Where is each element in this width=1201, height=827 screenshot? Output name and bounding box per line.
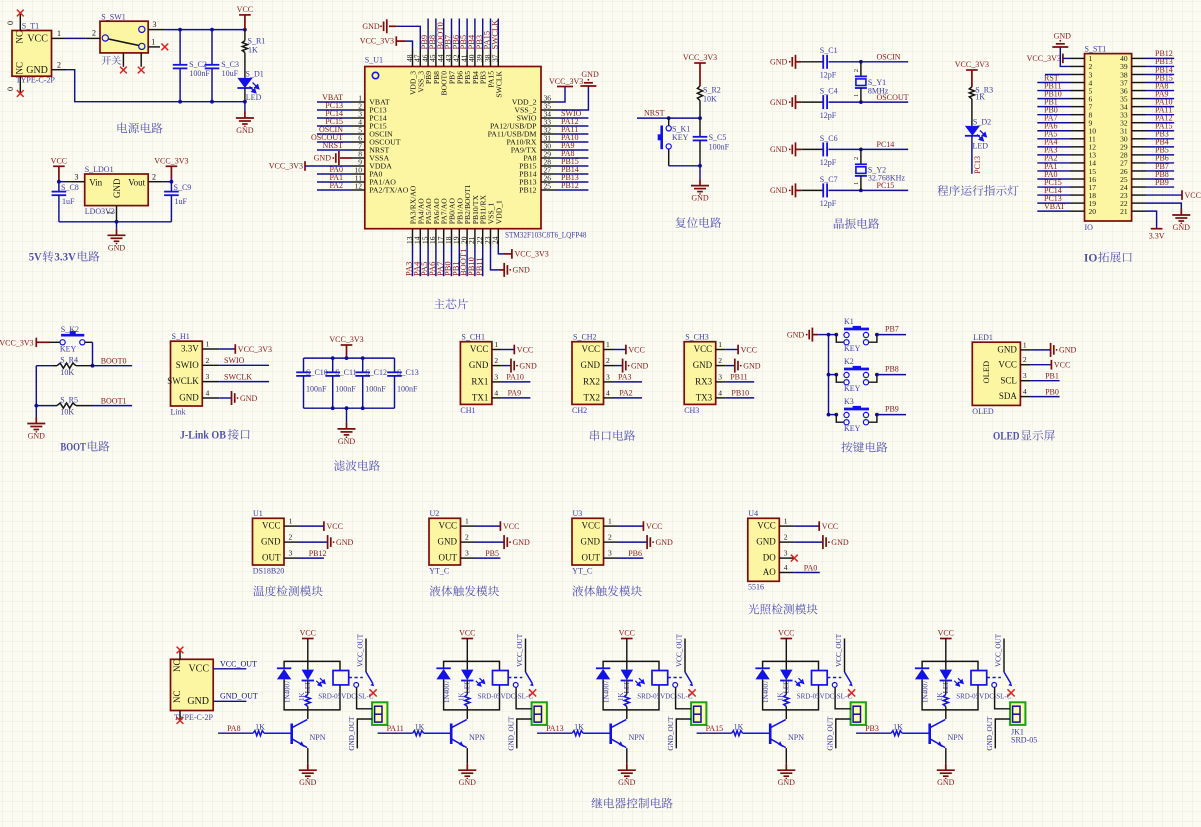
pushbutton K1 KEY [829, 317, 879, 353]
svg-text:3: 3 [718, 372, 722, 381]
wire/net PA3 at U1 pin 13 [412, 246, 414, 277]
svg-text:S_C1: S_C1 [820, 46, 838, 55]
no-connect flag on S_T1 top pin [17, 10, 24, 17]
no-connect on NC contact [370, 689, 377, 696]
junction [859, 60, 863, 64]
base resistor 1K [378, 723, 452, 736]
wire/net PB13 at U1 pin 26 [557, 181, 589, 183]
svg-text:IO: IO [1084, 250, 1098, 264]
svg-text:GND: GND [778, 778, 796, 787]
wire switch pin3 to VCC rail [163, 29, 245, 31]
base resistor 1K [856, 723, 930, 736]
svg-text:VCC: VCC [470, 344, 489, 354]
switch S_SW1 开关 [86, 13, 163, 67]
svg-text:2: 2 [152, 172, 156, 181]
wire/net PA9 at U1 pin 30 [557, 149, 589, 151]
svg-text:VCC_OUT: VCC_OUT [516, 633, 524, 667]
wire/net PA1 at ST1 pin 15 [1037, 170, 1070, 172]
svg-text:VCC: VCC [188, 664, 209, 675]
capacitor S_C13 100nF [387, 358, 419, 408]
svg-text:S_C12: S_C12 [365, 368, 387, 377]
svg-text:GND_OUT: GND_OUT [986, 716, 994, 751]
relay switch contact [992, 633, 1012, 687]
wire/net PB6 at U1 pin 42 [458, 19, 460, 51]
svg-text:U2: U2 [430, 509, 440, 518]
svg-text:1K: 1K [255, 723, 265, 732]
power flag VCC at S_CH3 pin1 [726, 345, 757, 355]
no-connect on NC contact [1008, 689, 1015, 696]
wire VCC to LED [626, 639, 628, 670]
relay switch contact [832, 633, 852, 687]
wire/net PC13 to U1 pin 2 [317, 109, 352, 111]
no-connect on NC contact [848, 689, 855, 696]
pushbutton K3 KEY [829, 397, 879, 433]
svg-text:SRD-05VDC-SL-C: SRD-05VDC-SL-C [478, 692, 534, 700]
svg-text:1K: 1K [458, 692, 466, 701]
wire/net PB7 at U1 pin 43 [451, 19, 453, 51]
svg-text:SWIO: SWIO [224, 356, 245, 365]
svg-text:1K: 1K [936, 692, 944, 701]
ground flag at U1 pin23 VSS_1 [491, 246, 531, 277]
svg-text:VCC: VCC [237, 5, 253, 14]
connector S_CH2 serial header [572, 333, 614, 415]
wire/net PC15 at ST1 pin 17 [1037, 186, 1070, 188]
svg-text:5516: 5516 [748, 583, 764, 592]
connector S_CH3 serial header [684, 333, 726, 415]
wire/net PA11 at ST1 pin 33 [1146, 114, 1174, 116]
svg-text:S_T1: S_T1 [22, 21, 39, 30]
svg-text:GND: GND [338, 437, 356, 446]
svg-text:1K: 1K [298, 692, 306, 701]
capacitor S_C2 100nF [173, 30, 211, 102]
svg-text:VCC: VCC [938, 629, 954, 638]
title 按键电路 [841, 442, 887, 453]
svg-text:2: 2 [784, 533, 788, 542]
wire/net PC14 [861, 148, 908, 150]
svg-text:S_H1: S_H1 [172, 332, 190, 341]
svg-text:3: 3 [606, 372, 610, 381]
wire/net PB15 at U1 pin 28 [557, 165, 589, 167]
power flag 3.3V at ST1 pin21 [1146, 211, 1165, 240]
ground [108, 222, 126, 253]
title 电源电路 [117, 123, 162, 134]
svg-text:VBAT: VBAT [1044, 202, 1065, 211]
svg-text:PA15: PA15 [706, 724, 724, 733]
svg-text:1K: 1K [617, 692, 625, 701]
svg-text:2: 2 [606, 356, 610, 365]
svg-text:K3: K3 [844, 397, 854, 406]
svg-text:S_R4: S_R4 [60, 356, 78, 365]
wire/net PB3 at ST1 pin 30 [1146, 138, 1174, 140]
svg-text:PC14: PC14 [877, 140, 895, 149]
ground flag at H1 pin4 [219, 391, 257, 405]
svg-text:1N4007: 1N4007 [762, 680, 770, 703]
power flag VCC at S_CH1 pin1 [502, 345, 533, 355]
wire/net PB14 at ST1 pin 38 [1146, 73, 1174, 75]
resistor 1K vertical [936, 681, 948, 710]
svg-text:VCC: VCC [757, 521, 776, 531]
svg-text:PB11: PB11 [474, 257, 484, 276]
connector S_H1 J-Link OB header [167, 332, 219, 416]
no-connect flag on S_SW1 pin1 [161, 44, 168, 51]
junction [345, 356, 349, 360]
svg-text:SRD-05: SRD-05 [1011, 736, 1037, 745]
transistor NPN [292, 710, 326, 764]
wire/net GND_OUT [213, 700, 246, 702]
svg-text:PA10: PA10 [506, 373, 524, 382]
wire/net SWCLK at U1 pin 37 [497, 19, 499, 51]
svg-text:RX3: RX3 [695, 377, 713, 387]
svg-text:VCC_OUT: VCC_OUT [675, 633, 683, 667]
wire/net PB7 at K1 [877, 334, 906, 336]
svg-text:NPN: NPN [469, 733, 485, 742]
svg-text:3: 3 [153, 20, 157, 29]
wire vout [163, 181, 172, 183]
svg-text:CH3: CH3 [684, 406, 699, 415]
svg-text:PB11: PB11 [730, 373, 748, 382]
capacitor S_C10 100nF [296, 358, 328, 408]
svg-text:VCC_3V3: VCC_3V3 [360, 37, 394, 46]
title 温度检测模块 [253, 585, 322, 596]
LED in relay block [461, 670, 485, 694]
power flag VCC at LED1 pin2 [1030, 360, 1070, 370]
display LED1 OLED module [972, 333, 1030, 416]
svg-text:PB0: PB0 [1045, 387, 1059, 396]
junction [361, 406, 365, 410]
bottom rail [59, 221, 171, 223]
wire VCC to LED [785, 639, 787, 670]
wire/net PB8 at U1 pin 45 [435, 19, 437, 51]
ground flag at U1 pin35 VSS_2 [557, 70, 599, 110]
relay coil SRD-05VDC-SL-C [318, 671, 374, 701]
power flag VCC_3V3 at U1 pin48 VDD_3 [360, 36, 413, 50]
ground flag at S_CH3 pin2 [726, 359, 761, 373]
wire at ST1 pin3 [1045, 73, 1070, 75]
svg-text:S_C4: S_C4 [820, 87, 838, 96]
wire/net GND_OUT from terminal pin2 [827, 716, 851, 751]
svg-text:GND: GND [26, 65, 48, 76]
power flag VCC_3V3 at H1 pin1 [219, 344, 272, 354]
bottom rail wire [180, 101, 245, 103]
resistor 1K vertical [298, 681, 310, 710]
crystal S_Y1 8MHz [853, 62, 889, 102]
svg-text:GND: GND [1059, 346, 1077, 355]
terminal block connector [691, 702, 706, 725]
svg-text:1: 1 [784, 517, 788, 526]
svg-text:1: 1 [289, 517, 293, 526]
svg-text:VCC_3V3: VCC_3V3 [329, 335, 363, 344]
wire/net PB10 at ST1 pin 6 [1037, 98, 1070, 100]
svg-text:YT_C: YT_C [572, 566, 592, 575]
svg-text:S_C3: S_C3 [221, 60, 239, 69]
svg-text:VCC_3V3: VCC_3V3 [269, 162, 303, 171]
wire/net PC14 to U1 pin 3 [317, 117, 352, 119]
svg-text:1uF: 1uF [62, 197, 75, 206]
base resistor 1K [537, 723, 611, 736]
junction [345, 406, 349, 410]
svg-text:12pF: 12pF [820, 111, 837, 120]
wire/net PA10 at ST1 pin 34 [1146, 106, 1174, 108]
svg-text:10uF: 10uF [222, 69, 239, 78]
svg-text:SCL: SCL [1000, 375, 1017, 385]
svg-text:S_C9: S_C9 [174, 183, 192, 192]
svg-text:S_ST1: S_ST1 [1085, 45, 1107, 54]
svg-text:SRD-05VDC-SL-C: SRD-05VDC-SL-C [318, 692, 374, 700]
svg-text:4: 4 [606, 388, 610, 397]
wire/net VCC_OUT [213, 668, 246, 670]
wire/net BOOT1 at U1 pin 20 [466, 246, 468, 277]
svg-text:1: 1 [494, 340, 498, 349]
no-connect flag on S_T1 bottom pin [17, 90, 24, 97]
svg-text:K1: K1 [844, 317, 854, 326]
wire/net GND_OUT from terminal pin2 [508, 716, 532, 751]
base resistor 1K [218, 723, 292, 736]
title 5V转3.3V电路 [29, 250, 100, 264]
junction [210, 28, 214, 32]
svg-text:VCC: VCC [741, 345, 757, 354]
junction [667, 116, 671, 120]
svg-text:S_C8: S_C8 [61, 183, 79, 192]
section filter circuit 滤波电路 [0, 0, 1, 1]
svg-text:GND: GND [618, 778, 636, 787]
title 液体触发模块 [572, 585, 641, 596]
wire/net SWIO at H1 pin2 [219, 364, 269, 366]
capacitor S_C4 12pF [801, 87, 861, 120]
svg-text:GND: GND [108, 243, 126, 252]
svg-text:4: 4 [494, 388, 498, 397]
resistor S_R2 10K [697, 86, 720, 119]
svg-text:NC: NC [172, 690, 182, 703]
wire NO contact to terminal pin1 [676, 687, 692, 709]
title 晶振电路 [834, 218, 879, 229]
svg-text:TYPE-C-2P: TYPE-C-2P [16, 75, 56, 84]
svg-text:12: 12 [355, 182, 363, 191]
title 液体触发模块 [430, 585, 499, 596]
svg-text:VCC_3V3: VCC_3V3 [1027, 54, 1061, 63]
svg-text:S_C10: S_C10 [306, 368, 328, 377]
wire/net RST at ST1 pin 4 [1037, 82, 1070, 84]
svg-text:1uF: 1uF [175, 197, 188, 206]
svg-text:2: 2 [206, 356, 210, 365]
power flag VCC (relay PA15) [781, 638, 793, 640]
no-connect at U4 pin3 DO [792, 557, 795, 559]
wire/net OSCOUT to U1 pin 6 [317, 141, 352, 143]
svg-text:SRD-05VDC-SL-C: SRD-05VDC-SL-C [797, 692, 853, 700]
svg-text:1K: 1K [248, 46, 258, 55]
title BOOT电路 [60, 439, 109, 453]
resistor S_R4 10K [36, 356, 92, 377]
wire/net PA11 at U1 pin 32 [557, 133, 589, 135]
svg-text:1K: 1K [574, 723, 584, 732]
wire/net PB0 at ST1 pin 8 [1037, 114, 1070, 116]
wire/net NRST to U1 pin 7 [317, 149, 352, 151]
svg-text:1: 1 [57, 29, 61, 38]
svg-text:1: 1 [853, 182, 860, 185]
svg-text:OLED: OLED [972, 407, 994, 416]
diode 1N4007 [277, 668, 292, 703]
no-connect on NC contact [689, 689, 696, 696]
no-connect bottom [177, 717, 184, 724]
capacitor S_C8 1uF [52, 182, 79, 222]
svg-text:GND_OUT: GND_OUT [220, 692, 258, 701]
svg-text:3: 3 [1023, 371, 1027, 380]
svg-text:SWCLK: SWCLK [489, 19, 499, 50]
wire/net PB12 at ST1 pin 40 [1146, 57, 1174, 59]
no-connect flag on S_SW1 bottom pin b [138, 67, 145, 74]
ground at emitter [618, 764, 636, 777]
svg-text:K2: K2 [844, 357, 854, 366]
svg-text:S_R5: S_R5 [60, 395, 78, 404]
svg-text:DS18B20: DS18B20 [253, 566, 285, 575]
svg-text:GND: GND [743, 361, 761, 370]
svg-text:OSCIN: OSCIN [877, 53, 901, 62]
svg-text:GND: GND [581, 360, 601, 370]
svg-text:NPN: NPN [629, 733, 645, 742]
junction [827, 333, 831, 337]
svg-text:VCC_OUT: VCC_OUT [994, 633, 1002, 667]
ground at emitter [937, 764, 955, 777]
svg-text:Vout: Vout [128, 177, 145, 187]
wire/net PB12 at U1 pin3 [299, 557, 324, 559]
svg-text:VCC_3V3: VCC_3V3 [238, 345, 272, 354]
svg-text:0: 0 [6, 87, 15, 91]
svg-text:S_U1: S_U1 [365, 56, 383, 65]
power flag VCC_3V3 [694, 63, 706, 86]
svg-text:YT_C: YT_C [429, 566, 449, 575]
svg-text:PB7: PB7 [885, 325, 899, 334]
svg-text:NC: NC [15, 62, 25, 75]
section BOOT circuit [0, 0, 1, 1]
wire/net PA2 to U1 pin 12 [317, 189, 352, 191]
svg-text:SWIO: SWIO [176, 360, 199, 370]
wire/net OSCOUT [861, 101, 908, 103]
svg-text:KEY: KEY [844, 344, 861, 353]
svg-text:12pF: 12pF [820, 199, 837, 208]
svg-text:2: 2 [1023, 355, 1027, 364]
svg-text:GND: GND [519, 361, 537, 370]
svg-text:S_C13: S_C13 [397, 368, 419, 377]
svg-text:TX3: TX3 [696, 393, 713, 403]
svg-text:GND: GND [240, 394, 258, 403]
svg-text:BOOT: BOOT [60, 439, 86, 453]
svg-text:U3: U3 [573, 509, 583, 518]
top rail [304, 357, 395, 359]
svg-text:37: 37 [491, 54, 500, 62]
resistor S_R5 10K [36, 395, 92, 416]
svg-text:2: 2 [853, 157, 860, 160]
svg-text:VDD_1: VDD_1 [494, 200, 503, 224]
svg-text:1N4007: 1N4007 [284, 680, 292, 703]
svg-text:100nF: 100nF [365, 385, 386, 394]
svg-text:J-Link OB: J-Link OB [180, 428, 226, 442]
title 串口电路 [590, 430, 635, 441]
junction [210, 100, 214, 104]
svg-text:OLED: OLED [981, 361, 991, 384]
terminal block connector [851, 702, 866, 725]
svg-text:100nF: 100nF [397, 385, 418, 394]
ground at emitter [458, 764, 476, 777]
capacitor S_C3 10uF [205, 30, 239, 102]
wire/net PB14 at U1 pin 27 [557, 173, 589, 175]
ground [236, 102, 254, 135]
svg-text:VCC_3V3: VCC_3V3 [955, 60, 989, 69]
svg-text:GND: GND [28, 432, 46, 441]
svg-text:1: 1 [608, 517, 612, 526]
svg-text:RX1: RX1 [471, 377, 488, 387]
svg-text:GND: GND [1054, 31, 1072, 40]
terminal block connector [1010, 702, 1025, 725]
svg-text:1: 1 [718, 340, 722, 349]
svg-text:S_CH3: S_CH3 [685, 333, 709, 342]
svg-text:SRD-05VDC-SL-C: SRD-05VDC-SL-C [637, 692, 693, 700]
svg-text:S_C7: S_C7 [820, 175, 838, 184]
svg-text:NRST: NRST [644, 109, 665, 118]
svg-text:VCC: VCC [459, 629, 475, 638]
svg-text:3: 3 [494, 372, 498, 381]
svg-text:VCC_3V3: VCC_3V3 [549, 77, 583, 86]
title 滤波电路 [334, 460, 380, 471]
resistor 1K vertical [617, 681, 629, 710]
svg-text:CH2: CH2 [572, 406, 587, 415]
svg-text:PA13: PA13 [546, 724, 564, 733]
LED in relay block [940, 670, 964, 694]
svg-text:VCC: VCC [51, 156, 67, 165]
junction [361, 356, 365, 360]
svg-text:VCC: VCC [262, 521, 281, 531]
title 继电器控制电路 [591, 798, 672, 809]
power flag VCC at U2 pin1 [476, 521, 520, 531]
svg-text:S_R2: S_R2 [703, 86, 721, 95]
wire NO contact to terminal pin1 [357, 687, 373, 709]
svg-text:NC: NC [15, 31, 25, 44]
svg-text:PB5: PB5 [485, 549, 499, 558]
wire/net PA5 at U1 pin 15 [427, 246, 429, 277]
wire S_T1 GND down to bottom rail [66, 70, 180, 102]
svg-text:2: 2 [494, 356, 498, 365]
module U3 YT_C [572, 509, 619, 576]
connector S_CH1 serial header [460, 333, 502, 415]
wire/net VBAT to U1 pin 1 [317, 101, 352, 103]
svg-text:2: 2 [853, 69, 860, 72]
svg-text:3.3V: 3.3V [181, 344, 199, 354]
svg-text:100nF: 100nF [189, 69, 210, 78]
pushbutton S_K1 KEY [658, 118, 691, 166]
svg-text:3: 3 [206, 372, 210, 381]
connector TYPE-C-2P power output [171, 651, 214, 722]
wire/net PB15 at ST1 pin 37 [1146, 82, 1174, 84]
power flag VCC_3V3 at ST1 pin1 [1027, 54, 1070, 64]
section indicator LED 程序运行指示灯 [0, 0, 1, 1]
wire/net PA6 at ST1 pin 10 [1037, 130, 1070, 132]
junction [57, 180, 61, 184]
svg-text:4: 4 [718, 388, 722, 397]
wire NO contact to terminal pin1 [835, 687, 851, 709]
IC S_U1 STM32F103C8T6_LQFP48 main MCU [352, 50, 587, 246]
svg-text:GND: GND [314, 154, 332, 163]
svg-text:GND_OUT: GND_OUT [508, 716, 516, 751]
svg-text:12pF: 12pF [820, 158, 837, 167]
svg-text:GND: GND [770, 98, 788, 107]
junction [859, 148, 863, 152]
title OLED显示屏 [993, 429, 1055, 443]
svg-text:VCC_3V3: VCC_3V3 [0, 338, 34, 347]
LED S_D2 [965, 117, 991, 150]
LED S_D1 [237, 69, 263, 102]
svg-text:1: 1 [853, 94, 860, 97]
wire/net PB0 at U1 pin 18 [451, 246, 453, 277]
svg-text:VCC: VCC [438, 521, 457, 531]
power flag VCC_3V3 at U1 pin9 VDDA [269, 161, 352, 171]
